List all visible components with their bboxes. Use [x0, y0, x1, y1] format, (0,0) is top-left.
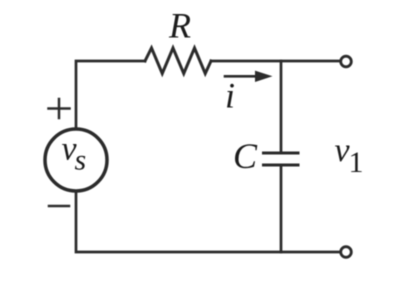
- svg-text:s: s: [75, 144, 87, 177]
- wire right branch lower (capacitor to bottom wire): [280, 167, 283, 253]
- svg-text:i: i: [225, 76, 235, 116]
- minus sign (source polarity -): [49, 205, 69, 208]
- capacitor C plates: [264, 153, 299, 165]
- plus sign (source polarity +): [49, 99, 70, 118]
- svg-text:C: C: [233, 136, 258, 176]
- current arrow i: [225, 71, 273, 82]
- svg-text:1: 1: [349, 146, 364, 179]
- wire top-left (source to resistor): [76, 61, 145, 128]
- voltage source vs circle: [45, 129, 107, 191]
- wire resistor to top terminal: [211, 60, 339, 63]
- terminal node top: [341, 56, 352, 67]
- svg-text:R: R: [168, 6, 191, 46]
- terminal node bottom: [341, 247, 352, 258]
- wire right branch upper (junction to capacitor): [280, 61, 283, 152]
- wire bottom (source to bottom terminal): [76, 193, 339, 253]
- resistor R: [145, 48, 211, 74]
